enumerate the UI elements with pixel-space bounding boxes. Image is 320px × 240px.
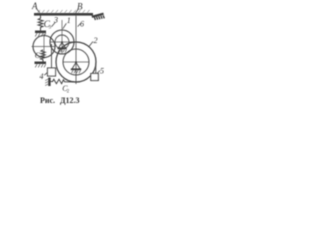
svg-text:2: 2 bbox=[94, 36, 98, 45]
svg-text:Д12.3: Д12.3 bbox=[60, 96, 80, 105]
svg-text:6: 6 bbox=[80, 20, 84, 29]
svg-text:Рис.: Рис. bbox=[40, 96, 55, 105]
svg-text:4: 4 bbox=[40, 72, 44, 81]
svg-text:1: 1 bbox=[67, 16, 71, 25]
svg-text:3: 3 bbox=[53, 16, 58, 25]
svg-text:5: 5 bbox=[100, 67, 104, 76]
svg-text:2: 2 bbox=[67, 89, 70, 94]
svg-text:3: 3 bbox=[49, 26, 52, 31]
